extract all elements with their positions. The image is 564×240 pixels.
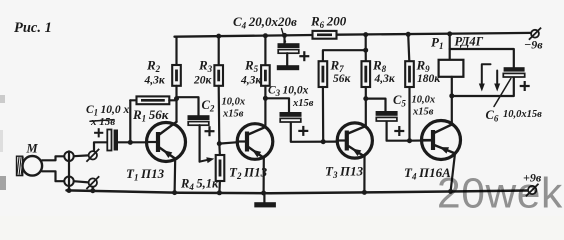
wire T2 emitter riser: [263, 158, 265, 193]
wire R2 column top: [175, 37, 177, 65]
terminal +9v: [526, 184, 539, 197]
wiper arrow of R4: [200, 157, 215, 163]
svg-text:х 15в: х 15в: [90, 116, 115, 128]
resistor R5: [261, 65, 270, 86]
svg-text:R7: R7: [330, 58, 347, 75]
wire upper socket to plug: [74, 154, 89, 157]
wire C3 to T3 base: [291, 123, 338, 142]
label R3: [193, 58, 215, 87]
junction dot T2 emitter at rail: [261, 191, 266, 196]
capacitor C6 (electrolytic): [503, 67, 529, 91]
wire R2 bottom to T1 collector: [175, 86, 177, 122]
junction dot connector bar to rail: [67, 188, 72, 193]
resistor R3: [214, 65, 223, 86]
svg-text:R9: R9: [416, 58, 433, 75]
label C1 value: [86, 104, 129, 128]
relay actuation arrow 2: [494, 71, 500, 92]
resistor R9: [405, 61, 414, 87]
label C3 value: [268, 85, 314, 110]
svg-text:10,0х: 10,0х: [412, 95, 436, 106]
capacitor C2 (electrolytic): [188, 115, 215, 136]
wire R4 bottom lead: [218, 181, 221, 193]
label T4: [404, 165, 451, 182]
label P1: [431, 35, 446, 52]
junction dot R9 rail: [406, 32, 411, 37]
label R8: [372, 58, 396, 86]
junction dot T1 collector node: [174, 96, 179, 101]
scan smudge left edge 1: [0, 95, 5, 103]
svg-text:РД4Г: РД4Г: [455, 35, 484, 49]
wire R1 right lead: [169, 99, 176, 101]
svg-text:10,0х: 10,0х: [222, 97, 246, 108]
capacitor C1 (vertical electrolytic): [94, 128, 118, 150]
svg-text:4,3к: 4,3к: [144, 75, 166, 87]
svg-text:R4 5,1к: R4 5,1к: [180, 177, 219, 193]
wire relay drop from rail: [449, 34, 451, 60]
label R4: [180, 177, 219, 193]
connector socket lower: [64, 177, 73, 186]
junction dot T2 collector node: [263, 96, 268, 101]
wire R1 left lead: [130, 99, 136, 101]
wire R9 bottom to T4 base node: [408, 87, 410, 141]
wire R3 column top: [218, 36, 220, 65]
label Fig.1: [14, 20, 52, 36]
svg-text:С5: С5: [393, 93, 408, 109]
wire R4 top lead: [218, 144, 221, 155]
svg-text:4,3к: 4,3к: [374, 73, 396, 85]
wire plug lower to rail: [92, 187, 94, 191]
label T1: [126, 166, 165, 183]
label R6: [310, 14, 347, 31]
svg-text:Рис. 1: Рис. 1: [14, 20, 52, 36]
wire base node to T1: [130, 141, 147, 143]
junction dot T1 base node: [128, 140, 133, 145]
label T3: [325, 164, 364, 181]
wire C5 to T4 base: [387, 122, 410, 141]
capacitor C3 (electrolytic): [280, 112, 309, 136]
label C5 value: [412, 95, 436, 118]
svg-text:М: М: [26, 142, 39, 156]
svg-text:Т1 П13: Т1 П13: [126, 166, 165, 183]
wire R9 rail lead: [408, 34, 409, 61]
svg-text:R1 56к: R1 56к: [132, 107, 169, 124]
ground stub below rail: [263, 193, 265, 202]
svg-text:R3: R3: [198, 58, 215, 75]
plug pin lower (slashed circle): [86, 176, 99, 189]
wire R7 bottom to T3 base node: [322, 87, 325, 142]
wire C6 top jog: [450, 49, 514, 67]
wire R3 bottom to T2 base node: [218, 86, 221, 144]
resistor R1 (horizontal): [137, 96, 170, 104]
junction dot T4 base node: [407, 138, 412, 143]
junction dot lower plug to rail: [90, 188, 95, 193]
label +9v: [523, 171, 542, 185]
svg-text:С2: С2: [202, 98, 217, 114]
svg-text:−9в: −9в: [524, 38, 543, 52]
wire top supply rail left section (-9v bus): [175, 35, 313, 37]
label -9v: [524, 38, 543, 52]
label C5: [393, 93, 408, 109]
junction dot relay/C6 node: [449, 93, 454, 98]
svg-text:Т3 П13: Т3 П13: [325, 164, 364, 181]
svg-text:Р1: Р1: [431, 35, 446, 52]
ground bar below C4: [277, 65, 299, 70]
svg-text:20wek: 20wek: [437, 171, 563, 217]
label R7: [330, 58, 352, 86]
ground bar (chassis): [254, 202, 276, 207]
relay P1 coil (RD4G): [439, 60, 464, 77]
wire lower socket to plug: [74, 181, 89, 182]
svg-text:Т2 П13: Т2 П13: [229, 165, 268, 182]
capacitor C5 (electrolytic): [376, 111, 405, 136]
label C2 value: [222, 97, 246, 120]
label M: [26, 142, 39, 156]
svg-text:х15в: х15в: [292, 98, 314, 109]
wire T3 emitter riser: [363, 157, 365, 193]
wire C4 to ground bar: [286, 53, 288, 65]
wire base node to T2: [219, 142, 238, 143]
resistor R2: [172, 65, 181, 86]
label C4 value: [233, 14, 297, 31]
wire top supply rail right section (-9v bus): [337, 33, 531, 35]
wire C4 rail lead: [283, 35, 285, 43]
wire T3 collector node to C5: [366, 99, 386, 111]
leader line C4 label: [282, 29, 286, 43]
connector socket upper: [64, 152, 73, 161]
transistor T4 (P16A): [422, 121, 461, 160]
junction dot R7/R8 split: [363, 48, 368, 53]
microphone M circle: [23, 156, 43, 176]
svg-text:R5: R5: [244, 58, 261, 75]
wire R5 bottom to T2 collector: [264, 86, 266, 127]
wire relay bottom to T4 collector: [451, 77, 453, 125]
transistor T3 (P13): [337, 123, 372, 158]
wire C6 bottom jog: [452, 77, 514, 96]
label C2: [202, 98, 217, 114]
svg-text:10,0х15в: 10,0х15в: [503, 109, 542, 120]
svg-text:R6 200: R6 200: [310, 14, 347, 31]
wire C1 to base node: [118, 141, 130, 143]
wire T1 emitter riser: [174, 159, 177, 193]
svg-text:R2: R2: [146, 58, 163, 75]
label R1: [132, 107, 169, 124]
resistor R8: [362, 61, 371, 87]
scan smudge left edge 3: [0, 130, 3, 152]
junction dot T3 collector node: [363, 96, 368, 101]
plug pin upper (slashed circle): [86, 149, 99, 162]
capacitor C4 (electrolytic): [278, 43, 310, 61]
junction dot R4 at rail: [217, 190, 222, 195]
junction dot C4 rail: [282, 33, 287, 38]
junction dot T1 emitter at rail: [172, 190, 177, 195]
wire plug upper to C1: [94, 142, 107, 151]
junction dot T2 base node: [217, 141, 222, 146]
svg-text:R8: R8: [372, 58, 389, 75]
transistor T2 (P13): [237, 124, 273, 160]
wire T2 collector node to C3: [265, 98, 289, 112]
relay actuation arrow 1: [479, 64, 491, 91]
strike mark through C1 label: [90, 120, 114, 122]
wire rail drop at R7/R8: [365, 35, 367, 51]
wire mic top stub: [42, 156, 64, 160]
wire mic bottom stub: [42, 171, 64, 181]
junction dot T3 emitter at rail: [362, 190, 367, 195]
terminal -9v: [529, 28, 541, 40]
wire bottom common rail (+9v bus): [67, 190, 528, 193]
wire base node to T4: [410, 139, 434, 142]
variable resistor R4: [216, 155, 225, 181]
junction dot R5 rail: [263, 33, 268, 38]
svg-text:х15в: х15в: [222, 109, 244, 120]
wire connector bar: [68, 151, 70, 190]
wire base node riser to R1: [129, 100, 131, 142]
label R9: [416, 58, 442, 86]
label R2: [144, 58, 166, 87]
scan smudge left edge 2: [0, 176, 6, 190]
junction dot T4 emitter at rail: [448, 189, 453, 194]
svg-text:20к: 20к: [193, 75, 213, 87]
label RD4G: [455, 35, 484, 49]
wire R8 top lead: [365, 50, 367, 61]
wire R5 column top: [264, 36, 266, 65]
junction dot R7/R8 rail: [363, 32, 368, 37]
svg-text:С6: С6: [486, 108, 501, 124]
transistor T1 (P13): [147, 122, 186, 162]
resistor R6 (horizontal, in rail): [313, 31, 337, 39]
wire R8 bottom to T3 collector: [365, 87, 367, 126]
svg-text:С3 10,0х: С3 10,0х: [268, 85, 309, 99]
microphone M hatched back: [17, 156, 24, 175]
svg-text:56к: 56к: [333, 73, 352, 85]
wire jog to R7: [323, 50, 366, 61]
wire collector node to C2: [177, 97, 199, 115]
resistor R7: [319, 61, 328, 87]
junction dot R3 rail: [216, 34, 221, 39]
wire T4 emitter riser: [451, 153, 455, 191]
svg-text:х15в: х15в: [412, 107, 434, 118]
label T2: [229, 165, 268, 182]
junction dot T3 base node: [321, 139, 326, 144]
junction dot relay rail: [447, 31, 452, 36]
wire C2 to R4 wiper: [199, 125, 201, 161]
svg-text:4,3к: 4,3к: [240, 75, 262, 87]
label C6: [486, 108, 543, 124]
leader line C6 label: [494, 79, 511, 107]
label R5: [240, 58, 262, 87]
